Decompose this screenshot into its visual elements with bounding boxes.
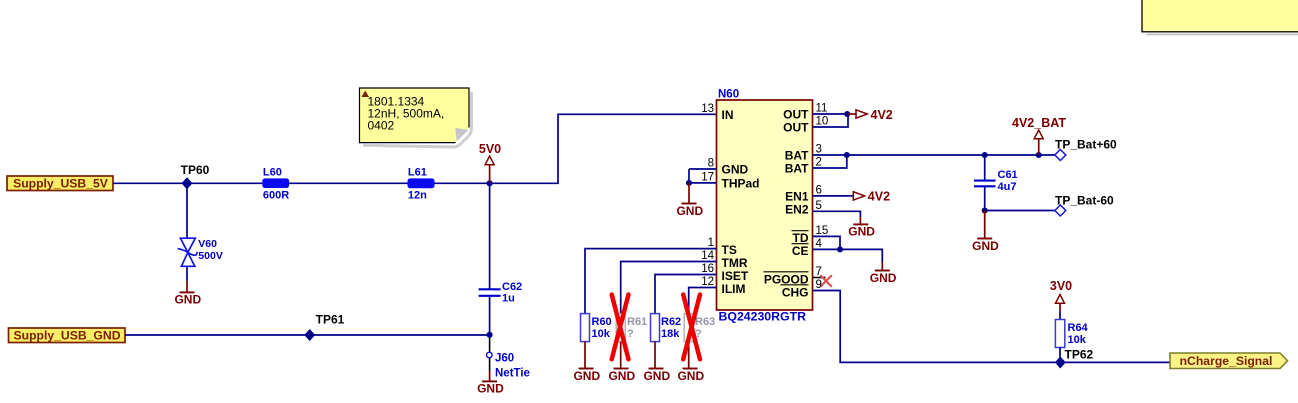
svg-text:1u: 1u [502, 293, 515, 305]
capacitor C62 [479, 281, 523, 305]
svg-text:TP62: TP62 [1065, 348, 1094, 362]
svg-text:CHG: CHG [782, 285, 809, 299]
svg-text:C61: C61 [998, 169, 1018, 181]
svg-text:3: 3 [816, 144, 822, 156]
wire THPad to GND [688, 183, 690, 204]
svg-text:GND: GND [676, 204, 703, 218]
test point TP_Bat+60 [1055, 138, 1117, 161]
svg-text:4: 4 [816, 238, 823, 250]
wire TMR to R61 [621, 262, 717, 314]
svg-text:GND: GND [972, 239, 999, 253]
svg-text:L61: L61 [408, 167, 427, 179]
svg-text:R64: R64 [1068, 322, 1089, 334]
pin 12 ILIM [701, 276, 745, 296]
node BAT junction [844, 152, 850, 158]
wire L61 to IC pin IN [435, 114, 717, 183]
svg-text:TS: TS [722, 243, 737, 257]
wire R62 to GND [654, 342, 656, 369]
wire EN2 to GND [859, 217, 861, 224]
wire ISET to R62 [655, 275, 717, 314]
svg-text:Supply_USB_5V: Supply_USB_5V [13, 177, 109, 191]
pin 8 GND [689, 158, 749, 177]
svg-text:R61: R61 [627, 316, 647, 328]
svg-text:3V0: 3V0 [1050, 279, 1072, 293]
svg-text:500V: 500V [198, 250, 223, 262]
wire R61 to GND [620, 342, 622, 369]
svg-text:4V2: 4V2 [871, 108, 893, 122]
resistor R64 [1055, 312, 1088, 363]
wire V60 to GND [186, 266, 188, 292]
pin 3 BAT [785, 144, 847, 163]
svg-text:18k: 18k [661, 328, 680, 340]
wire C62 to GND net [489, 297, 491, 353]
svg-text:12: 12 [701, 276, 714, 288]
pin 9 CHG [781, 279, 1171, 362]
svg-text:0402: 0402 [368, 118, 395, 132]
svg-text:12n: 12n [408, 189, 427, 201]
svg-text:600R: 600R [263, 189, 289, 201]
note corner box top-right [1142, 0, 1298, 34]
svg-text:6: 6 [816, 185, 822, 197]
wire 5V0 node to C62 [489, 183, 491, 288]
power port 4V2 at OUT [847, 108, 893, 122]
svg-text:NetTie: NetTie [495, 368, 530, 380]
svg-text:TP61: TP61 [316, 313, 345, 327]
svg-text:IN: IN [722, 108, 734, 122]
ground under V60 [174, 292, 201, 306]
ground under C61 [972, 239, 999, 253]
ground under R61 [608, 369, 635, 383]
svg-text:OUT: OUT [783, 108, 809, 122]
resistor R62 [651, 314, 682, 342]
svg-text:4V2: 4V2 [868, 190, 890, 204]
svg-text:GND: GND [174, 293, 201, 307]
svg-text:GND: GND [677, 369, 704, 383]
svg-text:GND: GND [870, 271, 897, 285]
svg-text:?: ? [627, 328, 634, 340]
resistor R61 not fitted [616, 314, 647, 342]
wire TP60 to V60 [186, 183, 188, 238]
node C61 bottom junction [982, 207, 988, 213]
pin 14 TMR [701, 250, 748, 270]
test point TP60 [181, 163, 210, 189]
inductor L60 [262, 166, 289, 201]
svg-text:nCharge_Signal: nCharge_Signal [1180, 354, 1273, 368]
svg-text:14: 14 [701, 250, 714, 262]
svg-text:OUT: OUT [783, 121, 809, 135]
svg-text:THPad: THPad [722, 176, 760, 190]
wire BAT to battery test points [847, 154, 1055, 156]
svg-text:TP60: TP60 [181, 163, 210, 177]
svg-text:EN2: EN2 [785, 203, 809, 217]
svg-text:N60: N60 [718, 89, 739, 101]
ground under THPad [676, 204, 703, 218]
svg-text:CE: CE [792, 244, 809, 258]
node 5V0 junction [487, 180, 493, 186]
svg-text:GND: GND [608, 369, 635, 383]
net tie J60 [487, 352, 530, 379]
ground under J60 [477, 381, 504, 395]
svg-text:BAT: BAT [785, 149, 809, 163]
svg-text:BAT: BAT [785, 162, 809, 176]
svg-text:1: 1 [708, 237, 714, 249]
pin 2 BAT [785, 155, 847, 176]
pin 10 OUT [783, 114, 848, 135]
svg-text:4u7: 4u7 [998, 181, 1017, 193]
node THPad GND junction [686, 180, 692, 186]
wire CE to GND [881, 262, 883, 271]
power port 5V0 [479, 142, 501, 183]
port Supply_USB_GND [9, 328, 126, 343]
svg-text:V60: V60 [198, 238, 217, 250]
wire C61 to GND [984, 211, 986, 239]
wire J60 to GND [489, 358, 491, 382]
inductor L61 [408, 167, 435, 202]
pin 11 OUT [783, 103, 848, 122]
svg-text:TP_Bat+60: TP_Bat+60 [1055, 138, 1117, 152]
svg-text:17: 17 [701, 172, 714, 184]
pin 15 TD [792, 225, 841, 249]
svg-text:C62: C62 [502, 281, 522, 293]
power port 4V2 at EN1 [853, 190, 890, 204]
svg-text:ISET: ISET [722, 269, 749, 283]
svg-text:BQ24230RGTR: BQ24230RGTR [719, 310, 807, 324]
svg-text:R62: R62 [661, 316, 681, 328]
svg-text:GND: GND [573, 369, 600, 383]
resistor R60 [581, 314, 612, 342]
svg-text:5: 5 [816, 200, 822, 212]
capacitor C61 [974, 155, 1018, 211]
svg-text:ILIM: ILIM [722, 282, 746, 296]
wire Supply_USB_5V to L60 [113, 182, 262, 184]
pin 13 IN [701, 103, 733, 122]
svg-text:R60: R60 [592, 316, 612, 328]
svg-text:16: 16 [701, 263, 714, 275]
svg-text:8: 8 [708, 158, 714, 170]
IC N60 body BQ24230RGTR [717, 89, 813, 324]
svg-text:GND: GND [722, 163, 749, 177]
svg-text:10k: 10k [592, 328, 611, 340]
svg-text:TP_Bat-60: TP_Bat-60 [1055, 194, 1114, 208]
svg-text:J60: J60 [495, 353, 514, 365]
port Supply_USB_5V [7, 176, 113, 191]
svg-text:5V0: 5V0 [479, 142, 501, 156]
ground under R60 [573, 369, 600, 383]
node C62/GND junction [487, 332, 493, 338]
no-fit cross over R61 [612, 295, 629, 360]
wire R60 to GND [584, 342, 586, 369]
svg-text:10: 10 [816, 116, 829, 128]
note box 1801.1334 [360, 88, 472, 147]
test point TP_Bat-60 [1055, 194, 1114, 216]
svg-text:4V2_BAT: 4V2_BAT [1012, 116, 1066, 130]
pin 16 ISET [701, 263, 749, 283]
svg-text:GND: GND [848, 225, 875, 239]
wire ILIM to R63 [689, 288, 717, 314]
test point TP61 [305, 313, 345, 341]
ground under R62 [643, 369, 670, 383]
svg-text:TMR: TMR [722, 256, 748, 270]
pin 5 EN2 [785, 200, 860, 217]
TVS diode V60 [178, 238, 223, 266]
ground under CE [870, 271, 897, 285]
pin 7 PGOOD no-connect [764, 266, 832, 287]
power port 4V2_BAT [1012, 116, 1066, 155]
svg-text:10k: 10k [1068, 334, 1087, 346]
svg-text:15: 15 [816, 225, 829, 237]
no-fit cross over R63 [683, 295, 700, 360]
node 4V2_BAT junction [1036, 152, 1042, 158]
svg-text:EN1: EN1 [785, 189, 809, 203]
ground under EN2 [848, 224, 875, 238]
test point TP62 [1056, 348, 1094, 368]
svg-text:11: 11 [816, 103, 828, 115]
wire Supply_USB_GND to C62 node [125, 334, 490, 336]
ground under R63 [677, 369, 704, 383]
svg-text:GND: GND [477, 382, 504, 396]
wire R63 to GND [688, 342, 690, 369]
node TD CE junction [837, 246, 843, 252]
power port 3V0 [1050, 279, 1072, 312]
svg-text:13: 13 [701, 103, 714, 115]
wire C61 to TP_Bat-60 [985, 210, 1055, 212]
pin 17 THPad [689, 169, 760, 190]
port nCharge_Signal [1170, 353, 1288, 369]
svg-text:L60: L60 [263, 166, 282, 178]
node C61 top junction [982, 152, 988, 158]
svg-text:9: 9 [816, 279, 822, 291]
pin 4 CE [792, 238, 883, 262]
pin 6 EN1 [785, 185, 853, 204]
node OUT junction [844, 111, 850, 117]
wire TS to R60 [585, 249, 717, 314]
svg-text:Supply_USB_GND: Supply_USB_GND [14, 329, 121, 343]
resistor R63 not fitted [684, 314, 715, 342]
wire L60 to L61 [289, 182, 407, 184]
svg-text:2: 2 [816, 157, 822, 169]
svg-text:GND: GND [643, 369, 670, 383]
svg-text:R63: R63 [695, 316, 715, 328]
pin 1 TS [708, 237, 737, 257]
